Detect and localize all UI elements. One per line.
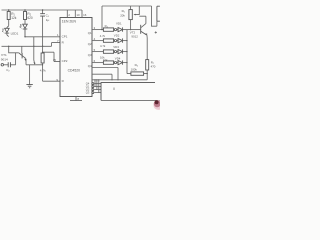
sounder BL partial: [157, 6, 160, 26]
wire diode bus: [126, 30, 128, 74]
module box B: [101, 83, 155, 101]
red stamp: [153, 100, 163, 110]
wire long bottom net: [92, 79, 147, 81]
svg-text:VD3: VD3: [113, 45, 119, 49]
touch pad terminal: [1, 64, 3, 66]
IC output row Q3 pin 5: [88, 48, 127, 57]
capacitor C2: [4, 53, 16, 68]
svg-text:9014: 9014: [1, 57, 8, 61]
svg-text:VT1: VT1: [1, 53, 7, 57]
svg-text:C2: C2: [6, 68, 10, 73]
svg-text:4.7k: 4.7k: [40, 68, 46, 72]
svg-text:1μ: 1μ: [46, 18, 50, 22]
pin 10 stub: [74, 10, 76, 18]
svg-text:9012: 9012: [131, 35, 138, 39]
wire mid horizontal net: [2, 43, 61, 47]
transistor VT2 9012: [127, 16, 148, 59]
svg-text:15: 15: [53, 58, 57, 62]
svg-text:R: R: [62, 40, 65, 44]
svg-text:4.7k: 4.7k: [100, 44, 106, 48]
LED LED1: [2, 26, 9, 37]
IC output row Q2 pin 4: [88, 37, 127, 46]
IC output row Q4 pin 6: [88, 59, 127, 68]
svg-text:Q3: Q3: [86, 90, 90, 94]
wire pin 11: [92, 68, 118, 80]
op IC U1 CD4520 box: [60, 18, 92, 97]
svg-text:Q2: Q2: [88, 42, 92, 46]
svg-text:II: II: [113, 87, 115, 91]
wire rail right corner to sounder: [152, 6, 157, 26]
svg-text:1EN 2EN: 1EN 2EN: [62, 19, 77, 23]
svg-text:4.7k: 4.7k: [100, 34, 106, 38]
svg-text:Q4: Q4: [88, 64, 92, 68]
wire rail drop to row1: [101, 6, 103, 30]
wire CP1 line: [25, 36, 60, 38]
svg-text:CP2: CP2: [62, 59, 68, 63]
svg-text:CP1: CP1: [62, 34, 68, 38]
svg-text:CD4520: CD4520: [68, 69, 81, 73]
polarity mark: [155, 31, 157, 33]
svg-text:LED1: LED1: [11, 31, 19, 35]
svg-text:16: 16: [83, 13, 87, 17]
svg-text:100k: 100k: [131, 67, 138, 71]
wire top supply rail right: [102, 5, 152, 7]
node junctions on mid net: [8, 46, 9, 47]
svg-text:10k: 10k: [103, 58, 108, 62]
transistor VT1: [9, 46, 43, 84]
svg-text:620: 620: [27, 16, 33, 20]
svg-text:Q1: Q1: [88, 31, 92, 35]
wire vertical taps to bottom rows: [95, 80, 99, 92]
ground: [26, 85, 32, 88]
wire top supply rail left: [2, 9, 83, 11]
wire pin 12: [92, 74, 112, 80]
svg-text:1: 1: [57, 33, 59, 37]
capacitor C1: [40, 10, 45, 46]
svg-text:12k: 12k: [11, 16, 17, 20]
svg-text:VD4: VD4: [115, 57, 121, 61]
svg-text:20k: 20k: [120, 13, 125, 17]
pin 16 stub: [81, 10, 83, 18]
wire CP2 branch: [43, 52, 60, 61]
svg-text:Q3: Q3: [88, 53, 92, 57]
wire branch with arrow: [33, 37, 36, 64]
wire bottom rail: [101, 99, 160, 101]
svg-text:470: 470: [151, 65, 156, 69]
resistor R1: [7, 9, 10, 26]
svg-text:10: 10: [76, 13, 80, 17]
wire branch to VT1 base: [21, 46, 23, 53]
resistor R3 4.7k: [41, 46, 60, 81]
resistor R6 100k: [127, 72, 148, 75]
resistor R2: [24, 9, 27, 24]
node LED2 junction: [24, 36, 25, 37]
LED LED2: [20, 24, 28, 37]
pin 8 stub: [70, 97, 82, 101]
IC output row Q1 pin 3: [88, 26, 127, 35]
svg-text:VD2: VD2: [114, 33, 120, 37]
svg-text:2: 2: [68, 13, 70, 17]
svg-text:VD1: VD1: [116, 22, 122, 26]
potentiometer R5 20k: [129, 6, 139, 30]
resistor R7 470: [146, 60, 149, 80]
svg-text:R: R: [62, 79, 65, 83]
pin 2 stub: [66, 10, 68, 18]
